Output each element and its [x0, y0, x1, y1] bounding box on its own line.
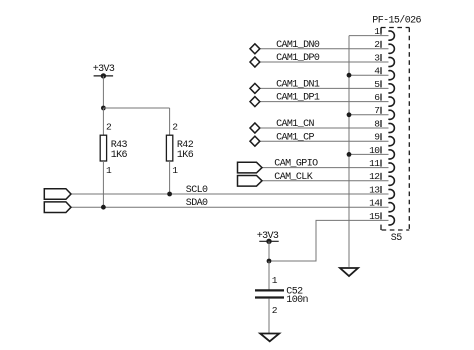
S5 pin 6 contact	[388, 97, 394, 106]
S5 pin 1 contact	[388, 31, 394, 40]
wire SCL0	[71, 193, 389, 195]
wire pin10	[349, 153, 389, 155]
wire pin2	[260, 48, 389, 50]
junction R42-SCL0	[167, 192, 172, 197]
open-net diamond pin6	[250, 97, 260, 107]
svg-text:CAM1_DN0: CAM1_DN0	[276, 40, 320, 51]
svg-text:CAM1_DP1: CAM1_DP1	[276, 93, 320, 104]
ground GND bottom	[260, 334, 279, 342]
junction pin10	[347, 152, 352, 157]
wire pin12	[262, 180, 389, 182]
wire R43 top	[102, 108, 104, 135]
svg-text:CAM1_DP0: CAM1_DP0	[276, 53, 320, 64]
svg-text:2: 2	[172, 122, 178, 133]
S5 pin 7 contact	[388, 110, 394, 119]
S5 pin 2 contact	[388, 44, 394, 53]
open-net diamond pin8	[250, 123, 260, 133]
svg-text:SDA0: SDA0	[186, 198, 208, 209]
svg-text:2: 2	[272, 305, 278, 316]
wire pin4	[349, 74, 389, 76]
S5 pin 4 contact	[388, 71, 394, 80]
svg-text:CAM1_DN1: CAM1_DN1	[276, 80, 320, 91]
open-net diamond pin3	[250, 57, 260, 67]
svg-text:S5: S5	[391, 233, 402, 244]
svg-text:1K6: 1K6	[111, 150, 128, 161]
S5 pin 11 contact	[388, 163, 394, 172]
wire R43 bottom	[102, 161, 104, 207]
power +3V3 bottom symbol	[259, 240, 278, 242]
S5 pin 9 contact	[388, 137, 394, 146]
wire pin9	[260, 140, 389, 142]
wire pin8	[260, 127, 389, 129]
wire pin7	[349, 114, 389, 116]
wire R42 top	[169, 108, 171, 135]
capacitor C52	[255, 289, 284, 291]
wire 3v3 to R42	[103, 107, 169, 109]
S5 pin 13 contact	[388, 189, 394, 198]
junction 3v3b	[267, 259, 272, 264]
S5 pin 14 contact	[388, 203, 394, 212]
junction 3v3	[101, 106, 106, 111]
S5 pin 15 contact	[388, 216, 394, 225]
svg-text:CAM1_CN: CAM1_CN	[276, 119, 314, 130]
S5 pin 12 contact	[388, 176, 394, 185]
S5 pin 5 contact	[388, 84, 394, 93]
wire pin1	[349, 35, 389, 37]
wire gnd vertical	[348, 36, 350, 267]
wire 3v3b down	[268, 241, 270, 261]
wire C52 to gnd	[268, 299, 270, 334]
open-net diamond pin9	[250, 136, 260, 146]
S5 pin 8 contact	[388, 123, 394, 132]
net flag SCL0	[44, 189, 71, 200]
wire SDA0	[71, 206, 389, 208]
svg-text:1: 1	[106, 165, 112, 176]
svg-text:CAM_CLK: CAM_CLK	[274, 172, 312, 183]
net flag SDA0	[44, 202, 71, 213]
svg-text:100n: 100n	[286, 295, 308, 306]
svg-text:CAM_GPIO: CAM_GPIO	[274, 159, 318, 170]
net flag pin11	[238, 162, 263, 173]
svg-text:PF-15/026: PF-15/026	[372, 15, 421, 27]
S5 pin 10 contact	[388, 150, 394, 159]
wire pin5	[260, 87, 389, 89]
connector S5 dashed outline	[381, 27, 409, 29]
ground GND right	[340, 268, 358, 276]
power +3V3 top symbol	[94, 75, 114, 77]
open-net diamond pin5	[250, 83, 260, 93]
wire R42 bottom	[169, 161, 171, 194]
wire 3v3 down	[102, 76, 104, 108]
open-net diamond pin2	[250, 44, 260, 54]
S5 pin 3 contact	[388, 57, 394, 66]
svg-text:1: 1	[272, 275, 278, 286]
svg-text:1K6: 1K6	[177, 150, 194, 161]
resistor R42	[166, 135, 172, 161]
net flag pin12	[238, 176, 263, 187]
wire pin11	[262, 167, 389, 169]
wire pin15 route	[269, 220, 389, 261]
resistor R43	[100, 135, 106, 161]
junction pin7	[347, 112, 352, 117]
svg-text:SCL0: SCL0	[186, 185, 208, 196]
wire pin3	[260, 61, 389, 63]
svg-text:2: 2	[106, 122, 112, 133]
wire pin6	[260, 101, 389, 103]
svg-text:1: 1	[172, 165, 178, 176]
junction pin4	[347, 73, 352, 78]
svg-text:CAM1_CP: CAM1_CP	[276, 132, 314, 143]
junction R43-SDA0	[101, 205, 106, 210]
wire to C52	[268, 261, 270, 290]
